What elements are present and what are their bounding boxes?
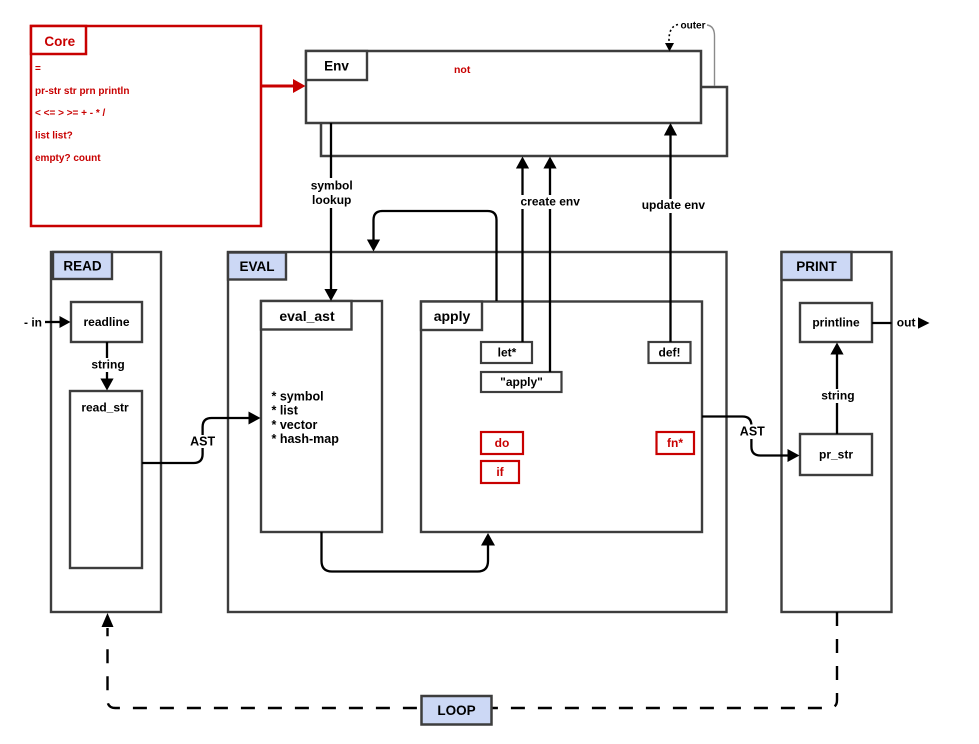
svg-text:read_str: read_str [81,400,129,414]
arrow in -> readline [45,316,71,328]
svg-text:Core: Core [44,34,75,49]
READ title box [53,252,112,279]
svg-text:< <= > >= + - * /: < <= > >= + - * / [35,108,106,119]
apply title box [421,302,482,331]
svg-text:- in: - in [24,315,42,329]
svg-text:* list: * list [272,404,299,418]
if box [481,461,519,483]
string arrow pr_str -> printline [830,343,843,435]
PRINT outer box [782,252,892,612]
readline box [71,302,142,342]
fn* box [657,432,695,454]
svg-text:PRINT: PRINT [796,259,837,274]
svg-text:pr_str: pr_str [819,448,853,462]
svg-text:string: string [91,358,124,372]
svg-text:readline: readline [83,315,129,329]
dashed loop PRINT -> LOOP -> READ [102,612,838,708]
svg-text:eval_ast: eval_ast [279,308,335,324]
label create env (with halo) [518,195,583,210]
label string print (with halo) [820,389,856,404]
AST arrow apply -> pr_str [702,417,800,463]
create env arrow from "apply" [543,157,556,373]
label string read (with halo) [90,358,127,373]
svg-text:update env: update env [642,198,706,212]
AST arrow read_str -> eval_ast [142,412,261,464]
eval_ast type list [272,389,340,446]
env front box [306,51,701,123]
create env arrow from let* [516,157,529,343]
READ outer box [51,252,161,612]
out triangle [918,317,930,329]
svg-text:apply: apply [434,308,471,324]
svg-text:AST: AST [190,435,215,449]
svg-text:pr-str str prn println: pr-str str prn println [35,86,129,97]
svg-text:Env: Env [324,58,349,73]
pr_str box [800,434,872,475]
dotted arrow outer -> front env [665,25,678,52]
svg-text:=: = [35,64,41,75]
svg-text:out: out [897,316,916,330]
Core function list [35,64,129,165]
svg-text:list list?: list list? [35,131,73,142]
eval_ast box [261,301,382,532]
outer pointer line to back env [707,25,715,86]
label AST left (with halo) [189,435,217,449]
loop arrow eval_ast -> apply (bottom) [322,532,496,572]
svg-text:* hash-map: * hash-map [272,432,340,446]
svg-text:fn*: fn* [667,436,683,450]
svg-text:lookup: lookup [312,193,351,207]
Core box [31,26,261,226]
out line [872,322,892,324]
svg-text:printline: printline [812,316,860,330]
PRINT title box [782,252,852,280]
def! box [649,342,691,363]
svg-text:outer: outer [681,20,706,31]
read_str box [70,391,142,568]
"apply" box [481,372,562,392]
EVAL title box [228,253,286,280]
label update env (with halo) [639,198,708,213]
let* box [481,342,532,363]
svg-text:string: string [821,389,854,403]
LOOP box [422,696,492,725]
symbol lookup line Env -> eval_ast [324,123,337,301]
env title box [306,51,367,80]
svg-text:* vector: * vector [272,418,318,432]
svg-text:AST: AST [740,425,765,439]
red arrow Core -> Env [261,79,306,93]
label symbol lookup (with halo) [307,178,356,208]
label AST right (with halo) [739,425,767,440]
svg-text:def!: def! [659,346,681,360]
svg-text:EVAL: EVAL [239,259,274,274]
svg-text:create env: create env [521,195,581,209]
apply box [421,302,702,533]
svg-text:LOOP: LOOP [437,703,475,718]
svg-text:READ: READ [63,258,102,273]
update env arrow (from def! up to front env) [664,123,677,342]
svg-text:* symbol: * symbol [272,389,324,403]
env back box (outer env) [321,87,727,156]
svg-text:do: do [495,436,510,450]
svg-text:not: not [454,64,471,76]
string arrow readline -> read_str [100,342,113,391]
svg-text:if: if [496,465,504,479]
printline box [800,303,872,342]
svg-text:let*: let* [498,346,517,360]
do box [481,432,523,454]
eval_ast title box [261,301,352,330]
svg-text:symbol: symbol [311,179,353,193]
Core title box [31,26,86,54]
EVAL outer box [228,252,727,612]
hook arrow apply -> EVAL top [367,211,497,301]
svg-text:"apply": "apply" [500,375,543,389]
svg-text:empty? count: empty? count [35,153,101,164]
